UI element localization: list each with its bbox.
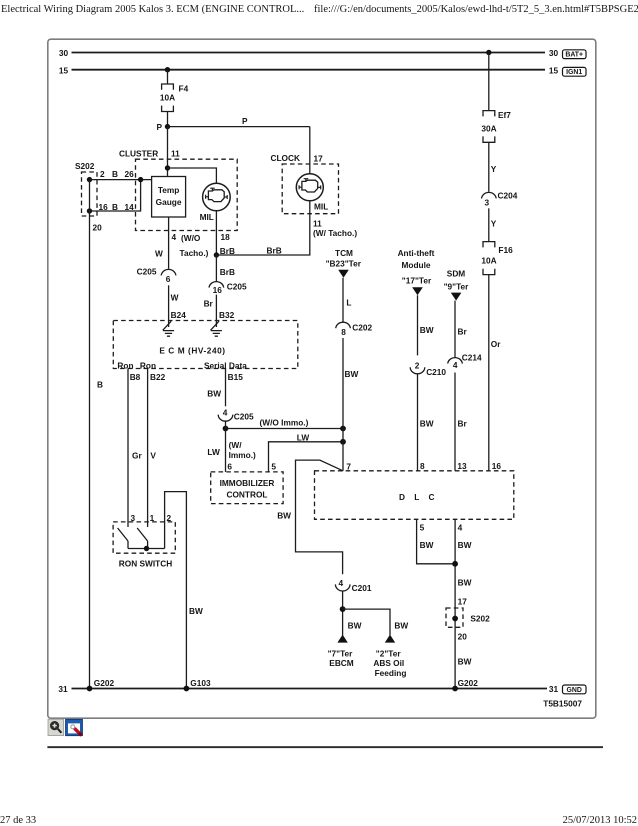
svg-text:BrB: BrB xyxy=(267,245,282,255)
svg-text:30A: 30A xyxy=(481,124,496,134)
svg-text:B24: B24 xyxy=(171,310,187,320)
wire B22 to RON switch pin 1 xyxy=(148,369,157,528)
header title text xyxy=(1,4,638,15)
svg-text:MIL: MIL xyxy=(200,212,214,222)
svg-text:31: 31 xyxy=(58,684,68,694)
svg-text:"17"Ter: "17"Ter xyxy=(402,276,432,286)
wire C205-16 to ECM B32 xyxy=(204,295,235,321)
svg-text:20: 20 xyxy=(458,632,468,642)
fuse F16 10A xyxy=(481,242,513,275)
connector S202 pin 17-20 splice xyxy=(446,596,490,641)
wire MIL to BrB junction xyxy=(216,211,235,256)
svg-text:5: 5 xyxy=(420,523,425,533)
connector C204 pin 3 xyxy=(482,191,518,208)
svg-text:CONTROL: CONTROL xyxy=(226,489,267,499)
svg-text:3: 3 xyxy=(131,513,136,523)
svg-text:LW: LW xyxy=(207,447,220,457)
svg-text:7: 7 xyxy=(346,461,351,471)
wire DLC pin 5 xyxy=(417,519,456,564)
svg-text:"7"Ter: "7"Ter xyxy=(328,648,354,658)
svg-text:20: 20 xyxy=(93,222,103,232)
svg-text:L: L xyxy=(346,298,351,308)
zoom-in toolbar icon xyxy=(48,719,64,735)
ECM box HV-240 xyxy=(113,321,297,371)
svg-text:C204: C204 xyxy=(498,191,518,201)
terminal ABS oil feeding triangle xyxy=(373,635,406,678)
BAT+ terminal box xyxy=(563,50,587,59)
pin 4 W/O Tacho label xyxy=(172,232,209,258)
svg-text:15: 15 xyxy=(549,66,559,76)
svg-text:BW: BW xyxy=(345,369,359,379)
ground ECM B32 xyxy=(211,321,222,337)
wire P to clock branch xyxy=(168,116,310,127)
svg-text:8: 8 xyxy=(420,461,425,471)
svg-text:Br: Br xyxy=(458,419,468,429)
wire SDM to C214 xyxy=(455,301,467,357)
svg-text:B22: B22 xyxy=(150,372,166,382)
svg-text:E C M (HV-240): E C M (HV-240) xyxy=(159,346,225,356)
connector C205 pin 16 xyxy=(209,281,247,294)
immobilizer control box xyxy=(211,462,283,504)
wire C202 to DLC pin 7 xyxy=(343,338,358,471)
svg-text:MIL: MIL xyxy=(314,202,328,212)
svg-text:TCM: TCM xyxy=(335,248,353,258)
svg-text:W: W xyxy=(171,293,179,303)
wire junction to ABS triangle xyxy=(343,609,409,635)
connector S202 instrument side xyxy=(75,161,134,232)
IGN1 terminal box xyxy=(563,67,587,76)
svg-text:Anti-theft: Anti-theft xyxy=(398,248,435,258)
wire immobilizer pin 5 LW to DLC xyxy=(269,432,344,472)
wire anti-theft to C210 xyxy=(418,295,434,355)
svg-text:LW: LW xyxy=(297,432,310,442)
node S202 pin 2 xyxy=(87,177,92,182)
svg-text:C214: C214 xyxy=(462,352,482,362)
svg-text:4: 4 xyxy=(223,408,228,418)
svg-text:Feeding: Feeding xyxy=(375,668,407,678)
svg-text:2: 2 xyxy=(100,169,105,179)
wire fuse F4 to node P xyxy=(167,112,169,127)
wire RON switch common xyxy=(128,546,165,551)
svg-text:F4: F4 xyxy=(179,84,189,94)
wire F16 to DLC pin 16 xyxy=(489,275,501,471)
svg-text:G103: G103 xyxy=(190,678,211,688)
svg-text:ABS Oil: ABS Oil xyxy=(373,658,404,668)
lamp MIL cluster xyxy=(200,183,231,222)
svg-text:B: B xyxy=(112,169,118,179)
svg-text:(W/: (W/ xyxy=(229,440,243,450)
svg-text:30: 30 xyxy=(59,48,69,58)
anti-theft module terminal xyxy=(398,248,435,295)
svg-text:BW: BW xyxy=(348,621,362,631)
svg-text:"9"Ter: "9"Ter xyxy=(444,281,470,291)
svg-text:17: 17 xyxy=(314,154,324,164)
svg-text:Or: Or xyxy=(491,339,501,349)
node EBCM/ABS junction xyxy=(340,606,346,612)
node W/O immo to TCM wire xyxy=(340,426,346,432)
svg-text:BW: BW xyxy=(277,511,291,521)
switch blade pin 1 xyxy=(137,528,147,549)
svg-text:B: B xyxy=(97,380,103,390)
svg-text:B32: B32 xyxy=(219,310,235,320)
svg-text:C205: C205 xyxy=(137,267,157,277)
TCM terminal xyxy=(326,248,362,278)
svg-text:30: 30 xyxy=(549,48,559,58)
svg-text:S202: S202 xyxy=(470,614,490,624)
svg-text:4: 4 xyxy=(172,232,177,242)
wire S202 pins tie xyxy=(89,180,91,211)
svg-text:V: V xyxy=(150,451,156,461)
svg-text:10A: 10A xyxy=(481,255,496,265)
svg-text:3: 3 xyxy=(484,197,489,207)
svg-text:Y: Y xyxy=(491,164,497,174)
svg-text:B: B xyxy=(112,202,118,212)
svg-text:BW: BW xyxy=(420,419,434,429)
node on 15 rail for F4 xyxy=(165,67,170,72)
drawing number T5B15007 xyxy=(543,699,582,709)
wire RON pin 2 to G103 xyxy=(165,492,203,689)
wire S202 pin16 loop xyxy=(90,180,141,211)
svg-text:"B23"Ter: "B23"Ter xyxy=(326,258,362,268)
footer page number xyxy=(0,815,36,826)
svg-text:P: P xyxy=(156,122,162,132)
ECM pin B22 label xyxy=(150,372,166,382)
svg-text:"2"Ter: "2"Ter xyxy=(376,648,402,658)
wire C210 to DLC pin 8 xyxy=(418,374,434,471)
wire serial junction to immobilizer pin 6 xyxy=(207,429,256,472)
svg-text:Gr: Gr xyxy=(132,451,142,461)
node 30 rail Ef7 tap xyxy=(486,50,491,55)
svg-text:EBCM: EBCM xyxy=(329,658,354,668)
clock box xyxy=(271,153,339,214)
node cluster internal junction xyxy=(165,165,170,170)
svg-text:T5B15007: T5B15007 xyxy=(543,699,582,709)
svg-text:RON SWITCH: RON SWITCH xyxy=(119,559,172,569)
svg-text:C210: C210 xyxy=(426,367,446,377)
label BW below junction xyxy=(458,578,472,588)
node pin5 pin4 junction xyxy=(452,561,458,567)
wire junction to MIL lamp xyxy=(168,168,217,184)
svg-text:17: 17 xyxy=(458,596,468,606)
svg-text:Immo.): Immo.) xyxy=(229,450,256,460)
svg-text:file:///G:/en/documents_2005/K: file:///G:/en/documents_2005/Kalos/ewd-l… xyxy=(314,4,638,15)
svg-text:G202: G202 xyxy=(458,678,479,688)
svg-text:GND: GND xyxy=(567,687,582,694)
wire DLC pin 4 to G202 xyxy=(455,519,471,688)
wire DLC pin 7 branch to EBCM feed xyxy=(277,460,343,574)
svg-text:BW: BW xyxy=(189,606,203,616)
connector C202 pin 8 xyxy=(336,322,373,337)
connector C205 pin 6 xyxy=(137,267,176,284)
svg-text:Temp: Temp xyxy=(158,185,180,195)
switch blade pin 3 xyxy=(118,528,128,549)
svg-text:W: W xyxy=(155,249,163,259)
svg-text:Electrical Wiring Diagram 2005: Electrical Wiring Diagram 2005 Kalos 3. … xyxy=(1,4,304,15)
svg-text:Br: Br xyxy=(458,326,468,336)
svg-text:Tacho.): Tacho.) xyxy=(180,248,209,258)
svg-text:Ron: Ron xyxy=(117,361,133,371)
svg-text:2: 2 xyxy=(167,513,172,523)
connector C201 pin 4 xyxy=(335,578,371,593)
fuse Ef7 30A xyxy=(481,110,511,142)
node G103 xyxy=(184,678,211,691)
svg-text:BW: BW xyxy=(458,656,472,666)
svg-text:Ef7: Ef7 xyxy=(498,110,511,120)
wire serial junction to DLC line W/O immo xyxy=(226,418,344,429)
wire P down to cluster pin 11 xyxy=(167,127,169,177)
label BW EBCM wire xyxy=(348,621,362,631)
svg-text:SDM: SDM xyxy=(447,268,466,278)
bus 31 ground rail xyxy=(58,684,558,694)
svg-text:8: 8 xyxy=(341,327,346,337)
ECM pin B15 label xyxy=(228,372,244,382)
svg-text:CLOCK: CLOCK xyxy=(271,153,301,163)
svg-text:C201: C201 xyxy=(352,583,372,593)
wire 30 rail to fuse Ef7 xyxy=(488,53,490,111)
svg-text:26: 26 xyxy=(125,169,135,179)
wire C204 to fuse F16 xyxy=(489,208,497,241)
svg-text:2: 2 xyxy=(415,360,420,370)
svg-text:11: 11 xyxy=(171,149,180,159)
svg-text:16: 16 xyxy=(99,202,109,212)
terminal EBCM triangle xyxy=(328,635,354,668)
svg-text:C205: C205 xyxy=(227,281,247,291)
svg-text:31: 31 xyxy=(549,684,559,694)
SDM terminal xyxy=(444,268,470,300)
svg-text:(W/O Immo.): (W/O Immo.) xyxy=(260,418,309,428)
svg-text:13: 13 xyxy=(457,461,467,471)
node BrB junction xyxy=(214,252,219,257)
wire C201 to EBCM junction xyxy=(342,591,344,636)
svg-text:BW: BW xyxy=(458,540,472,550)
svg-text:BW: BW xyxy=(458,578,472,588)
svg-text:(W/ Tacho.): (W/ Tacho.) xyxy=(313,228,357,238)
wire C205-6 to ECM B24 xyxy=(169,285,187,320)
wire 15 rail to fuse F4 xyxy=(167,70,169,84)
svg-text:B15: B15 xyxy=(228,372,244,382)
svg-text:27 de 33: 27 de 33 xyxy=(0,815,36,826)
wire C214 to DLC pin 13 xyxy=(455,373,467,471)
RON switch box xyxy=(113,513,175,568)
node G202 right xyxy=(452,678,478,691)
DLC box xyxy=(315,461,514,519)
footer date xyxy=(563,815,637,826)
svg-text:1: 1 xyxy=(150,513,155,523)
svg-text:D L C: D L C xyxy=(399,492,438,502)
cluster box xyxy=(119,149,237,231)
svg-text:16: 16 xyxy=(492,461,502,471)
svg-text:BrB: BrB xyxy=(220,267,235,277)
ECM pin B8 label xyxy=(130,372,141,382)
svg-text:Gauge: Gauge xyxy=(156,197,182,207)
label BW above G202 xyxy=(458,656,472,666)
svg-text:F16: F16 xyxy=(498,245,513,255)
lamp MIL clock xyxy=(296,174,328,212)
svg-text:C202: C202 xyxy=(352,323,372,333)
node P xyxy=(156,122,170,132)
connector C210 pin 2 xyxy=(410,360,446,377)
svg-text:BW: BW xyxy=(394,621,408,631)
zoom-window toolbar icon xyxy=(66,719,83,735)
svg-text:4: 4 xyxy=(458,523,463,533)
node temp gauge feed xyxy=(138,177,143,182)
clock pin 11 W/ Tacho label xyxy=(313,219,357,239)
svg-text:CLUSTER: CLUSTER xyxy=(119,149,158,159)
svg-text:BW: BW xyxy=(207,388,221,398)
svg-text:6: 6 xyxy=(166,274,171,284)
svg-text:5: 5 xyxy=(271,462,276,472)
wire S202 pin2 to temp gauge xyxy=(90,179,152,181)
svg-text:IGN1: IGN1 xyxy=(566,69,582,76)
footer rule xyxy=(47,746,603,748)
wire Ef7 to C204 xyxy=(489,142,497,192)
node serial data junction xyxy=(223,426,229,432)
svg-text:BAT+: BAT+ xyxy=(565,52,583,59)
svg-text:25/07/2013 10:52: 25/07/2013 10:52 xyxy=(563,815,637,826)
bus 30 rail xyxy=(59,48,559,58)
svg-text:4: 4 xyxy=(453,360,458,370)
svg-text:IMMOBILIZER: IMMOBILIZER xyxy=(220,478,275,488)
svg-text:Y: Y xyxy=(491,219,497,229)
svg-text:B8: B8 xyxy=(130,372,141,382)
ground ECM B24 xyxy=(163,321,174,337)
svg-text:P: P xyxy=(242,116,248,126)
svg-text:18: 18 xyxy=(221,232,231,242)
wire B15 serial data down xyxy=(207,369,225,407)
svg-text:4: 4 xyxy=(338,578,343,588)
svg-text:Module: Module xyxy=(401,260,430,270)
svg-text:15: 15 xyxy=(59,65,69,75)
connector C205 pin 4 xyxy=(218,408,254,422)
node LW to TCM wire xyxy=(340,439,346,445)
svg-text:BW: BW xyxy=(420,325,434,335)
wire TCM to C202 xyxy=(343,278,351,322)
svg-text:10A: 10A xyxy=(160,93,175,103)
svg-text:(W/O: (W/O xyxy=(181,233,201,243)
svg-text:11: 11 xyxy=(313,219,322,229)
svg-text:14: 14 xyxy=(125,202,135,212)
wire B8 to RON switch pin 3 xyxy=(128,369,142,528)
svg-text:Br: Br xyxy=(204,299,214,309)
svg-text:6: 6 xyxy=(227,462,232,472)
node S202 pin 16 xyxy=(87,208,92,213)
svg-text:16: 16 xyxy=(213,285,223,295)
diagram border frame xyxy=(48,39,596,718)
wire P branch into clock xyxy=(309,127,311,174)
wire BrB junction to C205 pin 16 xyxy=(216,255,235,281)
svg-text:BW: BW xyxy=(420,540,434,550)
svg-text:C205: C205 xyxy=(234,412,254,422)
connector C214 pin 4 xyxy=(448,352,482,369)
GND terminal box xyxy=(563,685,587,694)
wire temp gauge to C205 pin 6 xyxy=(155,217,169,269)
wire B left branch S202 to G202 xyxy=(90,211,104,689)
bus 15 rail xyxy=(59,65,559,75)
temp gauge xyxy=(152,177,186,218)
node G202 left xyxy=(87,678,115,691)
fuse F4 10A xyxy=(160,84,189,112)
wire BrB junction to clock MIL xyxy=(216,201,309,256)
svg-text:S202: S202 xyxy=(75,161,95,171)
svg-text:G202: G202 xyxy=(94,678,115,688)
